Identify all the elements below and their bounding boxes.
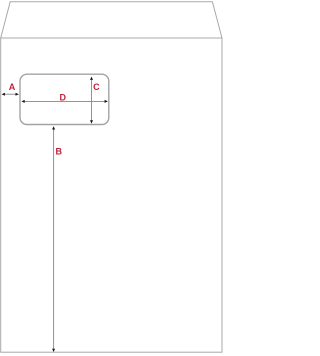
svg-text:D: D [60, 93, 67, 103]
envelope body [1, 38, 222, 352]
arrow C [90, 77, 93, 124]
arrow D [21, 100, 108, 103]
arrow A [2, 93, 19, 96]
svg-text:C: C [93, 82, 100, 92]
window [20, 74, 109, 124]
svg-text:A: A [9, 82, 16, 92]
svg-text:B: B [56, 147, 63, 157]
arrow B [52, 126, 55, 352]
envelope flap [1, 2, 222, 38]
